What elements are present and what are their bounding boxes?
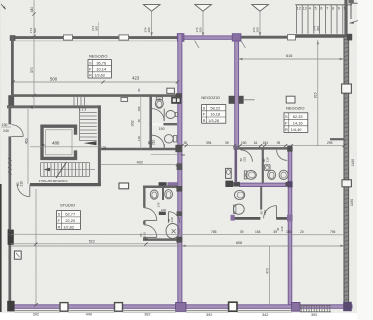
stair treads vertical	[296, 5, 342, 34]
svg-text:30: 30	[137, 119, 141, 123]
svg-text:4: 4	[309, 6, 311, 10]
stair flight up (right of elevator): treads	[80, 108, 97, 141]
upper-left wc door arc	[240, 150, 252, 162]
svg-text:1490: 1490	[350, 199, 354, 206]
pilaster block on left wall	[8, 230, 14, 245]
urinal outside west	[226, 168, 232, 178]
svg-text:615: 615	[314, 92, 318, 98]
dim chain left of bath1	[140, 96, 142, 149]
svg-text:240: 240	[3, 129, 9, 133]
wall: left exterior middle (above door)	[8, 107, 11, 124]
top-left corner arrow	[1, 4, 6, 10]
svg-text:NEGOZIO: NEGOZIO	[201, 95, 219, 100]
wall: top exterior segment 2	[73, 36, 120, 39]
window W2 in top wall	[119, 35, 129, 40]
svg-text:523: 523	[89, 240, 95, 244]
dark blocks at middle wall ends	[233, 182, 240, 187]
LAYER: walls	[7, 35, 351, 307]
stair direction arrow (filled)	[84, 141, 97, 145]
svg-text:493: 493	[137, 161, 143, 165]
bath2 west wall	[235, 147, 238, 183]
junction box right wall / stairs	[347, 34, 352, 41]
608 dim line	[11, 245, 344, 247]
svg-text:440: 440	[86, 312, 92, 316]
upper-right wc bowl	[268, 170, 276, 179]
svg-text:152: 152	[137, 106, 141, 111]
window W3 in top wall	[288, 35, 296, 40]
svg-text:13: 13	[303, 6, 307, 10]
svg-text:150: 150	[159, 127, 165, 131]
ticks on left vertical dim line	[32, 12, 35, 15]
stair top edge line	[295, 4, 352, 6]
wall: left exterior upper (negozio 1)	[11, 36, 14, 96]
purple wall: bath2 middle wall	[240, 183, 287, 186]
svg-text:300: 300	[199, 27, 203, 32]
bath1 north wall	[149, 94, 178, 97]
svg-text:R: R	[89, 73, 92, 78]
svg-text:25: 25	[103, 146, 107, 150]
triangle marker 3	[252, 5, 269, 12]
svg-text:340: 340	[30, 7, 34, 13]
lower stair flight treads (below elevator)	[41, 163, 90, 177]
svg-text:22,20: 22,20	[65, 218, 76, 223]
svg-text:130: 130	[2, 123, 8, 127]
boiler dark box	[171, 97, 181, 104]
pier B4 (purple)	[176, 302, 186, 311]
rotated 274/300 labels	[144, 27, 260, 32]
svg-text:20: 20	[300, 230, 304, 234]
studio table	[57, 211, 81, 230]
outer corner line top right	[350, 2, 357, 4]
dark+purple niche blocks above north wall	[159, 182, 167, 186]
svg-text:392: 392	[311, 313, 317, 317]
window W1 in top wall	[64, 35, 73, 40]
purple junction box on top wall	[232, 34, 241, 41]
30 dim line below bath1	[151, 154, 182, 156]
purple blocks at south wall ends	[231, 215, 235, 221]
bath3 middle separator	[162, 188, 164, 200]
svg-text:392: 392	[33, 313, 39, 317]
svg-text:1/3,28: 1/3,28	[208, 118, 219, 123]
tread numbers	[297, 6, 348, 10]
elevator inner face	[46, 130, 72, 155]
negozio 1 table	[88, 60, 111, 78]
lower door leaf + arc in south gap	[275, 206, 277, 219]
bath3 south wall	[143, 238, 178, 241]
svg-text:39: 39	[225, 141, 229, 145]
svg-text:210: 210	[263, 209, 267, 214]
svg-text:210: 210	[20, 181, 24, 187]
stair block door (south wall) leaf	[29, 185, 31, 197]
LAYER: top-right staircase	[295, 0, 358, 40]
LAYER: scan artifacts	[0, 0, 2, 312]
svg-text:300: 300	[256, 27, 260, 32]
stub wall with dark block	[159, 212, 166, 215]
svg-text:R: R	[285, 127, 288, 132]
pier B6 (purple)	[292, 302, 300, 311]
svg-text:7: 7	[326, 6, 328, 10]
window box on right wall (upper)	[342, 84, 352, 93]
svg-text:9: 9	[338, 6, 340, 10]
svg-text:473: 473	[265, 268, 269, 274]
upper-right sink	[279, 170, 288, 179]
svg-text:R: R	[58, 224, 61, 229]
svg-text:302: 302	[130, 120, 134, 126]
svg-text:300: 300	[95, 26, 99, 31]
triangle marker 2	[195, 5, 212, 12]
wall: top exterior below stairwell	[295, 34, 347, 37]
window box on right wall (middle)	[342, 180, 351, 187]
lower-left wc oval	[233, 204, 244, 214]
svg-text:210: 210	[151, 139, 155, 145]
svg-text:210: 210	[265, 157, 269, 162]
vertical dim line left studio	[35, 189, 37, 304]
svg-text:S: S	[203, 106, 206, 111]
svg-text:616: 616	[286, 54, 292, 58]
svg-text:300: 300	[316, 26, 320, 31]
dim chain above bath2 y=145.6	[182, 145, 344, 147]
pier SE corner (purple+dark)	[343, 302, 352, 311]
svg-text:423: 423	[132, 75, 140, 80]
wall: stair block east wall	[98, 105, 101, 186]
wall box on left wall	[14, 251, 21, 259]
svg-text:R: R	[203, 118, 206, 123]
purple cap west on top wall	[177, 34, 184, 42]
473 vertical dim	[269, 246, 271, 304]
svg-text:1/3,62: 1/3,62	[94, 73, 105, 78]
LAYER: bottom wall piers and windows	[7, 301, 352, 312]
wall hatch ticks on left wall	[8, 158, 12, 237]
svg-text:8: 8	[332, 6, 334, 10]
wall: top exterior segment 4 (right of purple junction)	[240, 36, 288, 39]
junction block wall A x purple wall	[176, 93, 182, 98]
svg-text:392: 392	[144, 312, 150, 316]
LAYER: bathroom 3 (studio, bottom middle)	[14, 182, 182, 259]
LAYER: bathroom 2 block (center right)	[195, 41, 293, 232]
svg-text:500: 500	[33, 28, 37, 33]
bath3 north wall	[143, 186, 178, 189]
LAYER: bathroom 1 (top middle)	[121, 88, 182, 170]
negozio2 616 dim line	[239, 58, 344, 60]
diagonal ticks below top wall junction	[195, 41, 199, 48]
wall: stair block south wall	[30, 183, 101, 186]
pier B3	[115, 303, 123, 312]
purple wall: bottom exterior	[10, 305, 352, 309]
dark block below urinal	[225, 181, 233, 187]
bath2 lower separator	[260, 186, 262, 209]
svg-text:S: S	[285, 114, 288, 119]
bath1 middle wall	[149, 123, 177, 125]
stair block door arc	[17, 185, 30, 197]
svg-text:25: 25	[42, 143, 46, 147]
left paper edge dark line	[0, 184, 2, 312]
svg-text:39: 39	[240, 230, 244, 234]
svg-text:392: 392	[206, 313, 212, 317]
svg-text:STUDIO: STUDIO	[60, 202, 75, 207]
bath2 south wall west part	[232, 217, 260, 220]
break line across lower flight	[56, 162, 67, 178]
svg-text:14,16: 14,16	[293, 120, 303, 125]
bath2 north wall	[234, 147, 291, 150]
svg-text:6: 6	[320, 6, 322, 10]
triangle marker 1	[143, 5, 160, 12]
svg-text:170: 170	[157, 202, 161, 207]
svg-text:16,18: 16,18	[210, 112, 220, 117]
lower door in west wall: leaf + arc	[144, 236, 157, 238]
svg-text:100: 100	[161, 208, 166, 212]
shaft box above bath1	[167, 88, 175, 93]
svg-text:154: 154	[255, 230, 261, 234]
dim chain below bath2 y=235.2	[11, 233, 344, 236]
wall: interior negozio1 south wall	[11, 94, 150, 97]
svg-text:12: 12	[297, 6, 301, 10]
wall: left jog block at stair box	[8, 95, 14, 108]
vertical extension line x=318	[317, 40, 319, 146]
svg-text:370: 370	[30, 67, 34, 73]
window sill lines between piers	[14, 310, 291, 312]
junction block on purple wall below	[177, 163, 183, 170]
bath2 south wall east part	[276, 217, 292, 220]
bidet small	[265, 165, 270, 171]
bath1 west wall	[149, 94, 152, 150]
entry door arc	[11, 125, 23, 137]
svg-text:16: 16	[254, 141, 258, 145]
stair run-up lines between walls A and B	[74, 97, 85, 106]
pier B2	[60, 303, 68, 312]
inner door leaf + arc	[167, 212, 169, 223]
bath2 upper separator	[262, 149, 264, 183]
purple wall P2: vertical x=235 top	[235, 41, 239, 147]
bath1 door upper: leaf + arc	[163, 109, 165, 121]
bath3 west wall lower stub	[143, 237, 145, 240]
svg-text:36,76: 36,76	[96, 60, 106, 65]
up arrow on x=318 extension line	[317, 41, 319, 45]
svg-text:480: 480	[52, 141, 60, 146]
lower-left sink oval	[235, 190, 245, 199]
labels rotated: 340 / 174 500 / 370 / 25 / 453	[24, 7, 36, 144]
upper-left wc bowl	[246, 171, 257, 180]
negozio 3 table	[284, 113, 308, 133]
wc1 bowl	[155, 99, 163, 108]
bath3 wc2	[165, 190, 173, 199]
dark junction blocks on east purple wall	[287, 146, 292, 151]
negozio1 dim line 500/423	[13, 81, 178, 83]
svg-text:NEGOZIO: NEGOZIO	[286, 106, 304, 111]
wc1 tank	[156, 97, 162, 100]
hatched sill section bottom right	[301, 306, 330, 312]
svg-text:30: 30	[137, 88, 141, 92]
svg-text:394: 394	[206, 141, 212, 145]
svg-text:794: 794	[330, 230, 336, 234]
svg-text:62,33: 62,33	[293, 114, 303, 119]
svg-text:785: 785	[211, 230, 217, 234]
corner cap top-left	[10, 35, 16, 41]
svg-text:25: 25	[30, 105, 34, 109]
svg-text:300: 300	[147, 27, 151, 32]
svg-text:210: 210	[280, 226, 284, 231]
svg-text:453: 453	[24, 138, 28, 144]
junction block bath1/purple south	[175, 145, 182, 152]
wall: top exterior segment 1	[11, 36, 64, 39]
LAYER: room label tables	[57, 53, 308, 229]
elevator shaft walls	[42, 126, 76, 158]
junction blocks on purple wall	[176, 186, 182, 192]
wall: top exterior segment 3	[129, 36, 179, 39]
bath3 west wall upper	[143, 186, 145, 208]
wall: right exterior (hatched)	[344, 37, 349, 306]
svg-text:20: 20	[145, 237, 149, 241]
lower flight walkline with arrow	[45, 169, 95, 171]
wall: corridor / bath1 south wall	[101, 148, 178, 151]
pier B5	[229, 302, 237, 311]
stub on right wall	[330, 138, 344, 140]
big basin oval with tap cross	[166, 224, 179, 239]
svg-text:NEGOZIO: NEGOZIO	[89, 53, 107, 58]
svg-text:S: S	[58, 212, 61, 217]
svg-text:150: 150	[241, 141, 247, 145]
svg-text:39: 39	[277, 141, 281, 145]
top wall inner face line	[14, 40, 176, 42]
purple wall P1: main vertical x=178-182	[178, 34, 182, 306]
column box in studio	[119, 183, 129, 189]
LAYER: purple highlighted walls	[10, 34, 352, 309]
LAYER: elevator and left stairs	[2, 108, 107, 197]
svg-text:500: 500	[50, 76, 58, 81]
svg-text:1490: 1490	[351, 159, 355, 166]
svg-text:S: S	[89, 60, 92, 65]
studio width dim 523	[11, 243, 178, 245]
right wall ladder ticks	[344, 38, 349, 304]
upper door in west wall: leaf + arc	[144, 219, 157, 221]
stairwell right wall top	[344, 0, 347, 35]
sink1	[166, 111, 175, 119]
leader arrow at right wall	[350, 21, 358, 24]
svg-text:39: 39	[273, 230, 277, 234]
svg-text:342: 342	[262, 313, 268, 317]
svg-text:150: 150	[286, 230, 292, 234]
pier SW corner	[7, 301, 14, 312]
box fixture in negozio 3	[286, 96, 295, 103]
svg-text:30: 30	[184, 141, 188, 145]
tick at bottom of studio vertical dim	[34, 303, 38, 306]
svg-text:17SS+H6.60/32/30.0: 17SS+H6.60/32/30.0	[39, 179, 68, 183]
small box in negozio1	[121, 98, 128, 102]
svg-text:30: 30	[182, 153, 186, 157]
svg-text:154: 154	[263, 141, 269, 145]
svg-text:1 2 3: 1 2 3	[79, 108, 86, 112]
svg-text:1/4,40: 1/4,40	[291, 127, 303, 132]
corridor 493 dim	[101, 164, 178, 166]
negozio 2 table	[202, 105, 226, 124]
leader lines from triangles to wall	[151, 11, 153, 36]
svg-text:62,77: 62,77	[65, 212, 75, 217]
svg-text:608: 608	[236, 241, 242, 245]
purple wall P4: vertical below bath2 east	[288, 146, 292, 307]
vertical dim line far left top	[33, 0, 35, 108]
wall: left exterior below entry door	[8, 136, 11, 306]
wc2 bowl	[164, 135, 173, 143]
door marker blocks on P2 wall (negozio2 top)	[229, 96, 235, 104]
bath3 wc1	[150, 190, 158, 199]
svg-text:299: 299	[327, 141, 333, 145]
svg-text:140: 140	[137, 136, 141, 141]
wall: stair block north wall	[7, 105, 101, 108]
bottom window labels	[33, 312, 318, 317]
svg-text:10,14: 10,14	[96, 67, 107, 72]
svg-text:210: 210	[242, 156, 246, 161]
bath1 door lower arc	[151, 135, 153, 148]
vertical dim line left of elevator	[27, 109, 29, 184]
bath3 west wall between doors	[143, 221, 145, 225]
stair walk centerline	[30, 146, 102, 148]
svg-text:1/2,82: 1/2,82	[63, 224, 74, 229]
svg-text:58,22: 58,22	[210, 106, 220, 111]
upper-right door arc	[277, 150, 288, 161]
svg-text:5: 5	[315, 6, 317, 10]
svg-text:210: 210	[170, 217, 174, 222]
purple wall: top (between caps)	[184, 36, 233, 39]
